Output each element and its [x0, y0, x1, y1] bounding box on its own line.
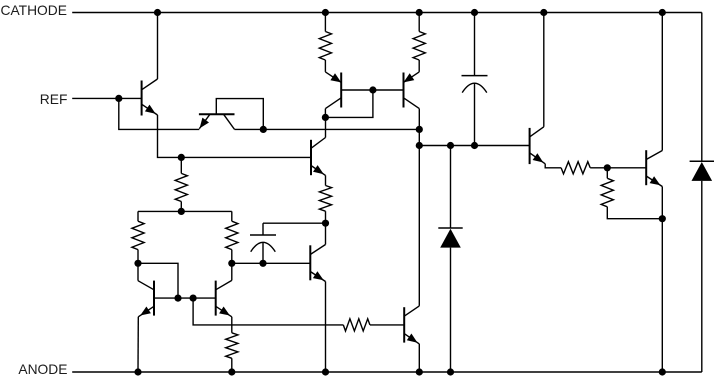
wire Q10 diode link	[138, 263, 178, 298]
transistor Q11	[216, 280, 232, 316]
wire CATHODE rail	[72, 12, 702, 14]
resistor R6	[319, 175, 331, 226]
wire mirror base to collector link	[325, 90, 373, 117]
wire Q1 emitter to node E1	[158, 115, 312, 157]
node E1 resistor junction	[178, 154, 185, 161]
transistor Q10	[138, 281, 154, 317]
capacitor C1	[462, 9, 488, 146]
wire mirror base rail	[341, 86, 403, 93]
wire Q11 collector up	[231, 263, 233, 280]
resistor R3	[175, 157, 187, 215]
diode D1	[438, 146, 462, 376]
wire Q8 collector to cathode	[540, 9, 547, 127]
node REF junction	[115, 95, 122, 102]
resistor R7	[226, 317, 238, 376]
wire bandgap base rail	[154, 295, 216, 302]
transistor Q2	[199, 114, 235, 129]
wire feedback to output base	[193, 298, 343, 325]
capacitor C2	[250, 223, 326, 267]
wire comp rail	[419, 142, 529, 149]
wire Q9 collector to cathode	[659, 9, 666, 151]
transistor Q1	[142, 79, 158, 116]
svg-text:CATHODE: CATHODE	[1, 3, 67, 18]
resistor R8	[343, 319, 404, 331]
transistor Q6	[310, 245, 325, 282]
transistor Q4	[404, 72, 420, 109]
wire Q6 emitter to anode	[322, 282, 329, 376]
transistor Q3	[325, 72, 341, 109]
wire Q7 emitter to anode	[416, 344, 423, 376]
resistor R4	[132, 211, 144, 267]
wire Q9 emitter to anode	[659, 187, 666, 376]
svg-text:ANODE: ANODE	[18, 362, 67, 377]
resistor R5	[226, 211, 238, 267]
wire bandgap top rail	[138, 210, 232, 212]
wire Q2 base loop	[216, 99, 263, 130]
node CATHODE label	[1, 3, 67, 18]
wire Q2 collector to mirror	[235, 128, 420, 130]
transistor Q8	[530, 127, 546, 164]
diode D2	[690, 13, 714, 373]
transistor Q9	[646, 150, 662, 186]
transistor Q5	[311, 138, 326, 176]
node Q2 collector junction	[260, 126, 267, 133]
wire Q5 collector up	[325, 117, 327, 137]
resistor R1	[319, 9, 331, 72]
wire ANODE rail	[72, 371, 702, 373]
wire Q8 emitter	[545, 164, 561, 168]
svg-text:REF: REF	[40, 92, 68, 107]
wire Q6 collector up	[325, 223, 327, 244]
node ANODE label	[18, 362, 67, 377]
wire Q3 collector down	[322, 109, 329, 121]
wire Q10 collector up	[137, 263, 139, 280]
wire REF lead	[72, 97, 141, 99]
wire Q10 emitter to anode	[134, 317, 141, 376]
wire Q6 base	[232, 262, 310, 264]
wire REF down to Q2 emitter	[119, 98, 200, 129]
node REF label	[40, 92, 68, 107]
wire Q1 collector to cathode	[154, 9, 161, 79]
resistor R9	[561, 162, 646, 174]
wire Q7 collector up	[416, 129, 423, 306]
wire Q4 collector down	[416, 109, 423, 133]
transistor Q7	[404, 306, 419, 344]
resistor R2	[413, 9, 425, 72]
resistor R10	[601, 168, 666, 222]
